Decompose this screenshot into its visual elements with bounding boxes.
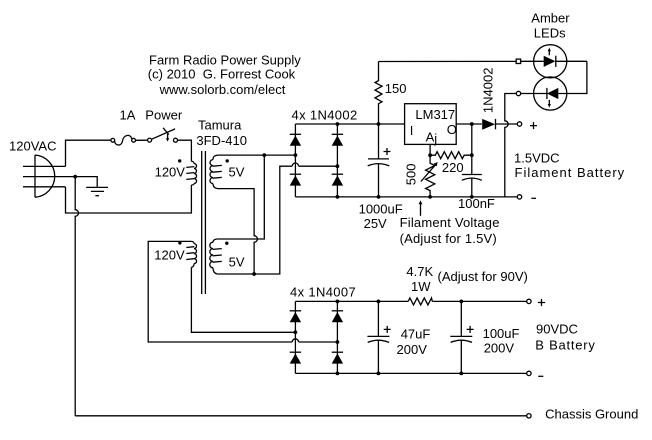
svg-text:1W: 1W	[411, 279, 431, 294]
svg-text:4x 1N4002: 4x 1N4002	[292, 107, 358, 122]
svg-text:4x 1N4007: 4x 1N4007	[290, 285, 356, 300]
wire diode to + terminal	[496, 123, 518, 125]
transformer T1 label	[196, 118, 247, 148]
terminal - 1.5V	[517, 195, 521, 199]
terminal + 90V	[527, 299, 531, 303]
wire LED1 to LED2 right side	[558, 61, 587, 93]
junction 47uF top	[377, 300, 381, 304]
wire DC- bottom rail	[295, 196, 517, 198]
junction S2 bottom	[252, 272, 256, 276]
title text	[148, 52, 301, 97]
svg-text:I: I	[410, 123, 414, 138]
terminal + 1.5V	[517, 122, 521, 126]
wire LM317 output	[456, 123, 482, 125]
diode BR1 D1	[290, 134, 301, 145]
minus sign 90V	[538, 375, 543, 377]
svg-text:150: 150	[385, 81, 407, 96]
diode BR1 D4	[332, 174, 343, 185]
wire neutral prong to ground	[75, 177, 97, 188]
svg-text:1.5VDC: 1.5VDC	[514, 151, 560, 166]
svg-text:5V: 5V	[229, 165, 245, 180]
svg-text:1N4002: 1N4002	[480, 68, 495, 114]
secondary winding S1 5V	[210, 155, 245, 188]
junction output tap	[470, 122, 474, 126]
svg-text:Farm Radio Power Supply: Farm Radio Power Supply	[149, 52, 301, 67]
svg-text:O: O	[447, 122, 457, 137]
svg-text:LM317: LM317	[415, 107, 455, 122]
junction BR1 AC1	[294, 153, 298, 157]
svg-text:47uF: 47uF	[401, 326, 431, 341]
wire S1 bottom down (hops AC1 wire)	[218, 189, 258, 274]
svg-text:120VAC: 120VAC	[9, 138, 56, 153]
wire B+ rail left of resistor	[295, 300, 408, 302]
svg-text:500: 500	[403, 164, 418, 186]
wire P2 top lead to bridge BR2 AC2 (hops left column)	[148, 241, 337, 342]
bridge BR2 right column wire	[336, 301, 338, 373]
junction 150/1000uF tap	[377, 122, 381, 126]
junction 100uF top	[459, 300, 463, 304]
regulator U1 LM317	[405, 104, 457, 147]
AC plug P1	[23, 155, 75, 197]
terminal square LED anode	[516, 59, 520, 63]
bridge BR2 left column wire	[294, 301, 296, 373]
primary winding P2 120V	[154, 241, 196, 267]
terminal chassis ground	[527, 414, 531, 418]
capacitor C3 47uF	[367, 301, 430, 373]
svg-text:LEDs: LEDs	[534, 25, 566, 40]
wire DC+ rail to LM317 input	[295, 123, 404, 125]
junction BR1 top right column	[336, 122, 340, 126]
diode D5 1N4002	[480, 68, 495, 130]
svg-text:3FD-410: 3FD-410	[196, 133, 247, 148]
filament voltage adjust callout	[400, 200, 500, 245]
svg-text:Chassis Ground: Chassis Ground	[545, 406, 638, 421]
resistor R3 220	[430, 152, 472, 175]
svg-text:120V: 120V	[155, 165, 186, 180]
secondary winding S2 5V	[210, 239, 245, 274]
wire hot prong to fuse	[66, 140, 111, 166]
wire B+ rail right of resistor	[432, 300, 526, 302]
90VDC B Battery label	[535, 322, 595, 353]
svg-text:Filament Battery: Filament Battery	[515, 165, 626, 180]
svg-text:B Battery: B Battery	[535, 337, 595, 352]
diode BR1 D2	[290, 174, 301, 185]
minus sign 1.5V	[531, 197, 536, 199]
junction BR1 bottom right column	[336, 195, 340, 199]
plus sign 1.5V	[530, 122, 537, 129]
wire S2 bottom to bridge AC2 (hops left column)	[217, 163, 337, 274]
wire LED2 return (hops + output)	[505, 94, 517, 197]
capacitor C2 100nF	[458, 175, 495, 211]
svg-text:4.7K: 4.7K	[406, 264, 433, 279]
junction BR2 top right column	[336, 300, 340, 304]
wire S1 top to bridge AC1	[218, 154, 296, 156]
diode BR1 D3	[332, 134, 343, 145]
wire bottom prong to primary return	[66, 185, 192, 213]
svg-text:200V: 200V	[397, 342, 428, 357]
svg-text:Tamura: Tamura	[198, 118, 242, 133]
junction BR2 bottom right column	[336, 372, 340, 376]
1.5VDC Filament Battery label	[514, 151, 625, 180]
junction BR2 AC1	[294, 330, 298, 334]
diode BR2 D3	[332, 311, 343, 322]
wire B- rail	[295, 372, 526, 374]
capacitor C4 100uF	[450, 301, 519, 373]
svg-text:220: 220	[442, 160, 464, 175]
wire pilot rail to LED1	[379, 60, 517, 62]
junction AC1 branch	[262, 153, 266, 157]
svg-text:1A: 1A	[120, 108, 136, 123]
terminal - 90V	[527, 371, 531, 375]
junction Aj	[428, 153, 432, 157]
svg-text:(Adjust for 90V): (Adjust for 90V)	[438, 269, 528, 284]
svg-text:5V: 5V	[229, 255, 245, 270]
terminal circle LED cathode	[516, 91, 520, 95]
junction neutral	[73, 175, 77, 179]
diode BR2 D1	[290, 311, 301, 322]
svg-text:100nF: 100nF	[458, 196, 495, 211]
switch S1 Power	[145, 108, 183, 143]
wire chassis ground run	[75, 415, 527, 417]
svg-text:25V: 25V	[364, 216, 387, 231]
diode BR2 D2	[290, 352, 301, 363]
wire switch to transformer primary	[178, 140, 192, 161]
Amber LEDs label	[531, 10, 570, 40]
wire earth drop to chassis ground (hops primary return)	[75, 177, 78, 416]
svg-text:(Adjust for 1.5V): (Adjust for 1.5V)	[400, 231, 497, 246]
svg-text:1000uF: 1000uF	[359, 201, 403, 216]
junction 1000uF bottom	[377, 195, 381, 199]
junction BR1 AC2	[336, 164, 340, 168]
bridge BR1 right column wire	[336, 124, 338, 197]
plus sign 90V	[538, 299, 545, 306]
fuse F1 1A	[111, 108, 136, 146]
capacitor C1 1000uF	[359, 124, 403, 231]
bridge BR1 left column wire	[294, 124, 296, 197]
junction 100uF bottom	[459, 372, 463, 376]
junction pot bottom	[428, 195, 432, 199]
svg-text:Power: Power	[145, 108, 183, 123]
resistor R1 150	[375, 62, 407, 125]
svg-text:200V: 200V	[484, 341, 515, 356]
transformer core	[202, 151, 206, 294]
potentiometer R2 500	[403, 155, 438, 197]
ground symbol	[86, 187, 108, 195]
wire Aj pin	[429, 144, 431, 155]
svg-text:j: j	[433, 131, 437, 146]
svg-text:Filament Voltage: Filament Voltage	[400, 215, 500, 230]
svg-text:www.solorb.com/elect: www.solorb.com/elect	[159, 82, 286, 97]
resistor R4 4.7K 1W	[406, 264, 527, 305]
junction 100nF bottom	[470, 195, 474, 199]
wire fuse to switch	[136, 139, 148, 141]
svg-text:100uF: 100uF	[483, 326, 520, 341]
svg-text:(c) 2010 G. Forrest Cook: (c) 2010 G. Forrest Cook	[148, 67, 296, 82]
wire output tap down to 100nF	[471, 124, 473, 175]
LED LED1	[534, 45, 587, 78]
wire P2 bottom lead to bridge BR2 AC1	[191, 267, 295, 332]
wire AC1 down to S2 top	[217, 155, 264, 239]
junction 47uF bottom	[377, 372, 381, 376]
LED LED2	[521, 77, 567, 110]
junction BR2 AC2	[336, 340, 340, 344]
primary winding P1 120V	[155, 159, 197, 185]
svg-text:120V: 120V	[154, 248, 185, 263]
wire terminal to LED1	[521, 60, 544, 62]
svg-text:Amber: Amber	[531, 10, 570, 25]
diode BR2 D4	[332, 352, 343, 363]
svg-text:90VDC: 90VDC	[536, 322, 578, 337]
junction 220 right	[470, 153, 474, 157]
